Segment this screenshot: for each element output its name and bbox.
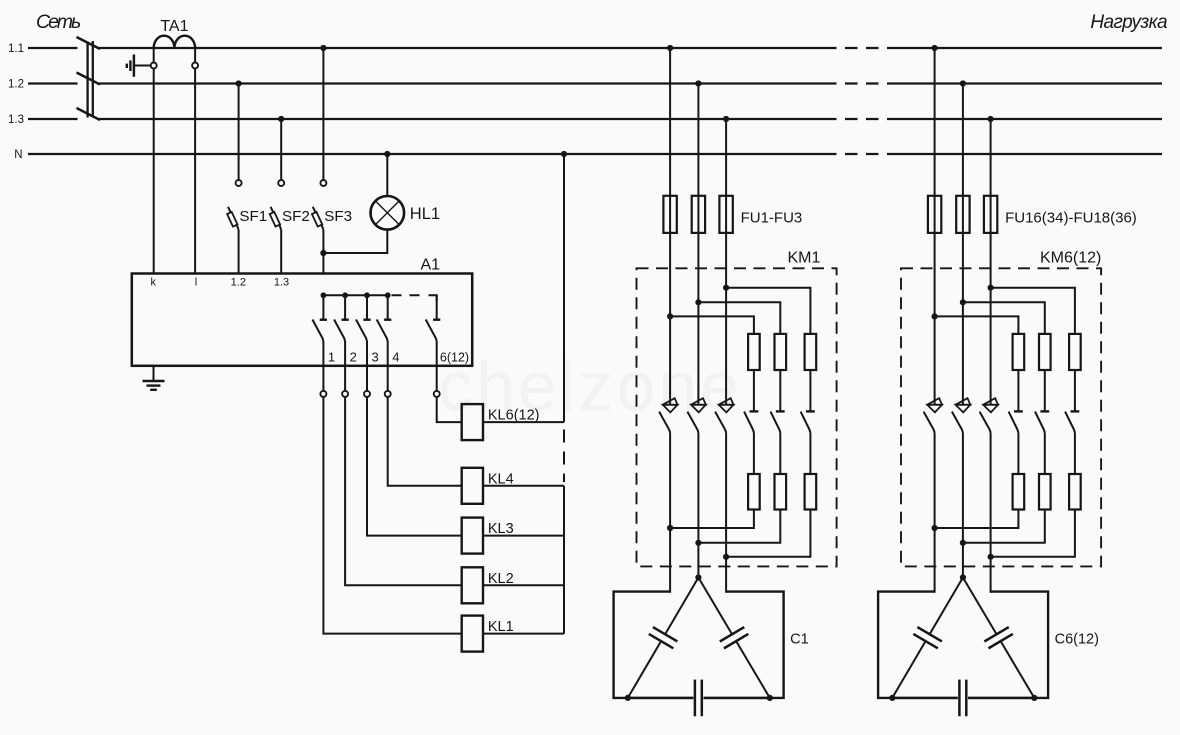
KM6(12) aux contact 1 blade [1009,412,1019,433]
fuse FU3 [719,196,732,233]
svg-text:1.2: 1.2 [8,79,24,91]
capacitor bank C6(12) enclosure right [968,592,1048,698]
bus 1.1 wire right segment [891,47,1162,49]
ground [143,381,165,390]
contactor KM1 main contact 2 blade [687,412,698,433]
wire A1 terminal to coil KL6(12) [437,397,462,422]
breaker SF1 blade [228,207,239,230]
wire aux contact 1 to lower R1 [1017,433,1019,475]
svg-text:l: l [195,277,197,289]
wire coil common line upper [563,154,565,422]
wire coil common line lower [563,486,565,634]
A1 contact 2 fixed T-bar [342,319,349,321]
fuse FUr1 [928,196,941,233]
A1 contact 6(12) fixed T-bar [433,319,440,321]
breaker SF3 blade [313,207,324,230]
svg-text:SF1: SF1 [239,208,267,225]
wire HL1 to SF3 output [323,230,387,253]
svg-text:2: 2 [350,350,357,365]
node N tap for coil common [561,151,567,157]
wire A1 contact 3 to terminal [366,341,368,391]
node A1 bus junction 1 [321,292,327,298]
node fuse tap FUr3 on bus 1.3 [988,116,994,122]
resistor KM6(12) discharge lower R1 [1013,474,1025,510]
contactor KM6(12) main contact 2 blade [952,412,963,433]
KM6(12) aux contact 2 blade [1035,412,1045,433]
breaker SF3 thermal element [312,212,322,227]
ground [127,55,134,77]
wire SF2 to A1 [280,230,282,274]
A1 contact 1 fixed stub [322,295,324,319]
TA1 secondary lead l [194,48,196,62]
A1 contact 6(12) fixed stub [436,295,438,319]
KM1 aux contact 1 blade [744,412,754,433]
contactor KM6(12) main contact 2 arc chute [956,398,971,405]
bus 1.1 wire main segment [99,47,824,49]
wire KM1 phase 2 to capacitor bank apex [697,433,699,578]
node KM1 resistor feed tap 2 [695,299,701,305]
bus 1.1 wire dashed break segment [824,47,891,49]
wire upper R3 to aux contact [809,370,811,411]
wire SF1 to A1 [238,230,240,274]
breaker SF2 thermal element [270,212,280,227]
wire N to HL1 [386,154,388,196]
wire aux contact 2 to lower R2 [779,433,781,475]
node C1 delta bottom left [625,695,631,701]
svg-text:1: 1 [328,350,335,365]
A1 contact 3 fixed stub [366,295,368,319]
svg-text:4: 4 [392,350,399,365]
wire upper R1 to aux contact [753,370,755,411]
fuse FU2 [692,196,705,233]
A1 contact 4 fixed T-bar [384,319,391,321]
node C1 delta bottom right [767,695,773,701]
node fuse tap FUr2 on bus 1.2 [960,80,966,86]
A1 output terminal 2 [342,391,348,397]
wire bus 1.2 to fuse FUr2 [962,84,964,405]
relay coil KL1 [462,616,483,652]
TA1 terminal l [192,63,198,69]
svg-text:1.2: 1.2 [231,277,246,289]
wire upper R1 to aux contact [1017,370,1019,411]
node A1 bus junction 3 [364,292,370,298]
node SF1 bus tap [236,80,242,86]
node C6(12) delta apex [960,574,966,580]
relay coil KL4 [462,468,483,504]
node C1 delta apex [695,574,701,580]
svg-text:1.3: 1.3 [274,277,289,289]
A1 contact 3 fixed T-bar [363,319,370,321]
node KM6(12) resistor feed tap 2 [960,299,966,305]
svg-text:3: 3 [372,350,379,365]
A1 internal bus corner to contact 6(12) [429,295,437,300]
contactor KM6(12) main contact 3 arc chute [983,398,998,405]
wire bus 1.3 to fuse FUr3 [990,119,992,405]
A1 contact 4 fixed stub [387,295,389,319]
svg-text:C1: C1 [790,632,809,648]
A1 contact 1 fixed T-bar [320,319,327,321]
bus 1.3 wire main segment [99,118,824,120]
wire KM6(12) phase 1 to capacitor bank [934,433,936,593]
contactor KM6(12) dashed box [901,268,1101,566]
bus 1.3 wire dashed break segment [824,118,891,120]
bus 1.3 wire right segment [891,118,1162,120]
svg-text:N: N [14,149,22,161]
bus 1.2 wire right segment [891,82,1162,84]
wire aux contact 3 to lower R3 [1074,433,1076,475]
svg-text:6(12): 6(12) [440,351,469,365]
wire k to A1 [153,69,155,274]
node KM6(12) bottom junction 3 [988,554,994,560]
node fuse tap FU3 on bus 1.3 [723,116,729,122]
wire bus 1.3 to fuse FU3 [725,119,727,405]
wire upper R3 to aux contact [1074,370,1076,411]
svg-text:1.1: 1.1 [8,43,24,55]
controller A1 box [132,274,472,366]
wire SF3 to A1 [322,230,324,274]
wire bus 1.2 to SF1 [238,84,240,181]
contactor KM1 main contact 2 arc chute [691,398,706,405]
wire coil KL3 to common line [483,535,564,537]
contactor KM1 main contact 3 arc chute [719,398,734,405]
A1 output terminal 3 [364,391,370,397]
contactor KM6(12) main contact 3 blade [980,412,991,433]
A1 contact 6(12) blade [426,320,437,342]
svg-text:Нагрузка: Нагрузка [1090,12,1167,33]
bus 1.1 break jog [77,37,101,49]
wire A1 contact 6(12) to terminal [436,341,438,391]
wire A1 terminal to coil KL1 [323,397,461,634]
wire upper R2 to aux contact [1044,370,1046,411]
wire KM1 phase 3 to capacitor bank [725,433,727,593]
bus 1.3 break jog [77,108,101,120]
KM6(12) aux contact 3 T-bar [1071,410,1080,412]
wire KM6(12) resistor feed 3 [991,288,1075,334]
svg-text:Сеть: Сеть [36,11,81,33]
svg-text:SF3: SF3 [324,208,352,225]
node C6(12) delta bottom left [889,695,895,701]
svg-text:HL1: HL1 [410,205,440,223]
resistor KM1 discharge upper R1 [748,334,760,370]
node SF3 bus tap [320,45,326,51]
breaker SF2 blade [271,207,282,230]
contactor KM1 main contact 1 arc chute [663,398,678,405]
wire A1 contact 1 to terminal [322,341,324,391]
svg-text:1.3: 1.3 [8,114,24,126]
KM1 aux contact 3 blade [801,412,811,433]
wire KM1 resistor feed 2 [698,302,780,334]
capacitor C1 phase A-B [628,578,699,698]
bus N wire dashed break segment [824,153,891,155]
node KM6(12) resistor feed tap 3 [988,285,994,291]
svg-text:SF2: SF2 [282,208,310,225]
resistor KM1 discharge upper R3 [805,334,817,370]
wire A1 terminal to coil KL3 [367,397,462,536]
wire coil KL4 to common line [483,485,564,487]
wire A1 terminal to coil KL2 [345,397,462,585]
svg-text:FU1-FU3: FU1-FU3 [741,209,803,226]
wire aux contact 2 to lower R2 [1044,433,1046,475]
TA1 secondary lead k [153,48,155,62]
contactor KM1 main contact 1 blade [659,412,670,433]
resistor KM1 discharge lower R1 [748,474,760,510]
wire KM6(12) resistor feed 1 [935,316,1019,334]
A1 internal bus wire [323,294,390,296]
wire coil KL2 to common line [483,584,564,586]
wire l to A1 [194,69,196,274]
resistor KM6(12) discharge upper R3 [1069,334,1081,370]
capacitor C1 phase B-C [698,578,769,698]
A1 contact 2 blade [334,320,345,342]
KM6(12) aux contact 2 T-bar [1040,410,1049,412]
node KM1 bottom junction 3 [723,554,729,560]
bus N wire left segment [28,153,78,155]
KM1 aux contact 2 T-bar [776,410,785,412]
bus N wire main segment [78,153,825,155]
capacitor C6(12) phase B-C [963,578,1034,698]
capacitor C6(12) phase C-A bottom [892,680,1034,717]
wire bus 1.1 to fuse FUr1 [934,48,936,405]
bus 1.1 wire left segment [28,47,78,49]
KM6(12) aux contact 1 T-bar [1014,410,1023,412]
wire lower R3 to main wire 3 [991,510,1075,557]
node A1 bus junction 2 [342,292,348,298]
node KM6(12) resistor feed tap 1 [932,313,938,319]
A1 output terminal 4 [385,391,391,397]
resistor KM1 discharge lower R2 [775,474,787,510]
KM6(12) aux contact 3 blade [1065,412,1075,433]
A1 internal bus dashed extension [392,294,426,296]
node KM6(12) bottom junction 1 [932,525,938,531]
node A1 bus junction 4 [385,292,391,298]
fuse FUr3 [984,196,997,233]
wire ground to terminal k [134,65,151,67]
node fuse tap FU1 on bus 1.1 [667,45,673,51]
node KM1 bottom junction 2 [695,540,701,546]
resistor KM6(12) discharge upper R1 [1013,334,1025,370]
resistor KM1 discharge upper R2 [775,334,787,370]
SF3 terminal [320,180,326,186]
relay coil KL2 [462,567,483,603]
contactor KM1 main contact 3 blade [715,412,726,433]
A1 contact 1 blade [312,320,323,342]
TA1 terminal k [151,63,157,69]
SF1 terminal [236,180,242,186]
wire coil KL6(12) to common line [483,421,564,423]
feeder boundary double line [88,41,93,118]
A1 output terminal 6(12) [434,391,440,397]
capacitor C1 phase C-A bottom [628,680,770,717]
resistor KM6(12) discharge lower R3 [1069,474,1081,510]
node KM1 bottom junction 1 [667,525,673,531]
wire bus 1.3 to SF2 [280,119,282,180]
bus 1.3 wire left segment [28,118,78,120]
wire bus 1.2 to fuse FU2 [697,84,699,405]
contactor KM1 dashed box [637,268,837,566]
resistor KM1 discharge lower R3 [805,474,817,510]
wire bus 1.1 to fuse FU1 [669,48,671,405]
wire aux contact 3 to lower R3 [809,433,811,475]
node HL1 N tap [384,151,390,157]
wire KM1 phase 1 to capacitor bank [669,433,671,593]
resistor KM6(12) discharge upper R2 [1039,334,1051,370]
fuse FUr2 [956,196,969,233]
wire coil KL1 to common line [483,633,564,635]
wire lower R1 to main wire 1 [935,510,1019,529]
node KM1 resistor feed tap 3 [723,285,729,291]
capacitor bank C6(12) enclosure left [878,592,958,698]
A1 ground stem [153,366,155,381]
resistor KM6(12) discharge lower R2 [1039,474,1051,510]
svg-text:k: k [151,277,157,289]
bus 1.2 wire left segment [28,82,78,84]
KM1 aux contact 3 T-bar [806,410,815,412]
current transformer TA1 windings [154,36,195,48]
bus 1.2 break jog [77,73,101,85]
node KM6(12) bottom junction 2 [960,540,966,546]
A1 contact 3 blade [356,320,367,342]
svg-text:KM6(12): KM6(12) [1040,250,1101,267]
node C6(12) delta bottom right [1031,695,1037,701]
wire coil common line dashed continuation [563,430,565,483]
capacitor C6(12) phase A-B [892,578,963,698]
node SF2 bus tap [278,116,284,122]
SF2 terminal [278,180,284,186]
node fuse tap FU2 on bus 1.2 [695,80,701,86]
wire KM6(12) phase 3 to capacitor bank [990,433,992,593]
wire A1 contact 2 to terminal [344,341,346,391]
lamp HL1 [371,196,405,230]
breaker SF1 thermal element [227,212,237,227]
contactor KM6(12) main contact 1 arc chute [927,398,942,405]
capacitor bank C1 enclosure left [614,592,694,698]
wire bus 1.1 to SF3 [322,48,324,180]
fuse FU1 [663,196,676,233]
svg-text:A1: A1 [421,257,441,274]
wire aux contact 1 to lower R1 [753,433,755,475]
wire lower R2 to main wire 2 [698,510,780,543]
svg-text:TA1: TA1 [160,18,188,35]
bus N wire right segment [891,153,1162,155]
A1 contact 2 fixed stub [344,295,346,319]
wire KM1 resistor feed 1 [670,316,754,334]
wire A1 contact 4 to terminal [387,341,389,391]
KM1 aux contact 2 blade [771,412,781,433]
KM1 aux contact 1 T-bar [750,410,759,412]
wire A1 terminal to coil KL4 [388,397,462,486]
wire upper R2 to aux contact [779,370,781,411]
wire KM1 resistor feed 3 [726,288,810,334]
wire KM6(12) phase 2 to capacitor bank apex [962,433,964,578]
capacitor bank C1 enclosure right [704,592,784,698]
svg-text:KM1: KM1 [788,250,821,267]
bus 1.2 wire main segment [99,82,824,84]
relay coil KL3 [462,518,483,554]
node SF3-HL1 junction [320,250,326,256]
bus 1.2 wire dashed break segment [824,82,891,84]
wire lower R2 to main wire 2 [963,510,1045,543]
svg-text:C6(12): C6(12) [1055,632,1099,648]
node fuse tap FUr1 on bus 1.1 [932,45,938,51]
wire lower R1 to main wire 1 [670,510,754,529]
wire lower R3 to main wire 3 [726,510,810,557]
A1 output terminal 1 [320,391,326,397]
contactor KM6(12) main contact 1 blade [924,412,935,433]
wire KM6(12) resistor feed 2 [963,302,1045,334]
A1 contact 4 blade [377,320,388,342]
relay coil KL6(12) [462,404,483,440]
svg-text:FU16(34)-FU18(36): FU16(34)-FU18(36) [1005,209,1137,226]
node KM1 resistor feed tap 1 [667,313,673,319]
